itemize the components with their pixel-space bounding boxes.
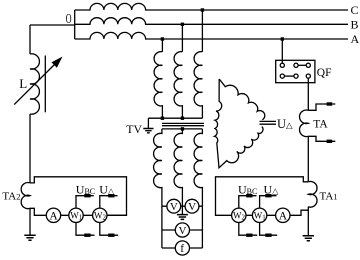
TV core lines xyxy=(162,123,204,125)
wattmeter W1 voltage terminal bottom xyxy=(76,223,95,236)
svg-text:TV: TV xyxy=(126,122,142,136)
wattmeter W2 voltage terminal top xyxy=(100,196,118,208)
svg-text:L: L xyxy=(19,76,27,91)
inductor L (arc suppression coil) xyxy=(30,54,39,114)
wire drop phase b to TV xyxy=(181,24,183,52)
TV secondary bus xyxy=(162,128,203,130)
wattmeter W2 voltage terminal top (right) xyxy=(239,196,257,208)
wire L to TA2 xyxy=(29,114,31,183)
voltmeter V (b-c) xyxy=(185,199,199,213)
junction dot on line C (TV phase c drop) xyxy=(201,8,204,11)
circuit breaker QF box xyxy=(276,60,315,82)
open-delta cloud winding (top outline) xyxy=(219,79,265,120)
ground (TV neutral) xyxy=(143,129,153,133)
wire line A to QF xyxy=(281,39,283,63)
junction dot on line B (TV phase b drop) xyxy=(181,23,184,26)
wattmeter W1 voltage terminal bottom (right) xyxy=(260,223,278,236)
svg-text:V: V xyxy=(170,201,178,213)
wire QF to TA xyxy=(307,78,309,110)
wattmeter W1 voltage terminal top xyxy=(76,196,94,208)
svg-text:U△: U△ xyxy=(264,182,280,196)
phase C winding (series coil) and line C xyxy=(75,3,348,10)
svg-text:O: O xyxy=(66,11,72,26)
svg-text:A: A xyxy=(49,211,58,223)
wire O to L xyxy=(30,24,75,26)
TV primary neutral bus xyxy=(148,117,202,119)
wire f taps xyxy=(162,247,203,249)
wire drop phase a to TV xyxy=(161,39,163,52)
current transformer TA xyxy=(300,110,309,137)
svg-text:B: B xyxy=(351,18,359,32)
current transformer TA1 xyxy=(308,181,317,207)
TA secondary tap bottom xyxy=(308,136,335,141)
wattmeter W1 voltage terminal top (right) xyxy=(260,196,277,208)
ammeter A (left) xyxy=(46,208,60,222)
wire voltmeter row xyxy=(162,205,203,207)
U_delta output double line xyxy=(260,121,277,124)
wire TV neutral to ground xyxy=(147,118,149,128)
wattmeter W2 (right) xyxy=(232,208,246,222)
wire L top lead xyxy=(29,25,31,54)
TV primary winding phase c xyxy=(194,52,202,119)
phase A winding (series coil) and line A xyxy=(75,32,348,39)
wattmeter W2 (left) xyxy=(93,208,107,222)
TA secondary tap top xyxy=(308,104,335,110)
wire TA1 secondary top to loop (right instrument loop top) xyxy=(216,177,309,216)
wattmeter W2 voltage terminal bottom xyxy=(100,223,118,236)
ground (TV secondary b) xyxy=(177,215,188,220)
wire TA to TA1 xyxy=(307,136,309,182)
svg-text:TA1: TA1 xyxy=(320,191,338,203)
inductor L adjust arrow xyxy=(14,63,56,105)
svg-text:C: C xyxy=(351,3,359,17)
junction dot on line A (TV phase a drop) xyxy=(161,37,164,40)
TV secondary winding c xyxy=(194,129,202,248)
TV secondary winding b xyxy=(174,129,182,215)
ground (below TA1) xyxy=(303,236,314,241)
current transformer TA2 xyxy=(21,183,30,209)
svg-text:A: A xyxy=(279,211,288,223)
junction dot TV secondary b xyxy=(181,127,184,130)
wattmeter W2 voltage terminal bottom (right) xyxy=(239,223,257,236)
wire TA1 to ground xyxy=(307,207,309,236)
junction dot TV neutral a xyxy=(161,117,164,120)
TV secondary winding a xyxy=(154,129,162,248)
ammeter A (right) xyxy=(276,208,290,222)
junction dot TV neutral b xyxy=(181,117,184,120)
open-delta cloud winding (bottom and left outline) xyxy=(215,79,263,168)
svg-text:UBC: UBC xyxy=(76,182,95,196)
wire TA2 to ground xyxy=(29,208,31,235)
svg-text:U△: U△ xyxy=(99,182,115,196)
ground (below TA2) xyxy=(24,235,35,240)
voltmeter V (a-c) xyxy=(175,223,189,237)
svg-text:f: f xyxy=(180,243,184,255)
junction dot on line A (QF drop) xyxy=(281,37,284,40)
wattmeter W1 (right) xyxy=(252,208,266,222)
voltmeter V (a-b) xyxy=(167,199,181,213)
node O neutral bus xyxy=(74,10,76,39)
inductor L core bar xyxy=(44,56,46,113)
wire meters row (right group) xyxy=(232,214,290,216)
wire TA1 secondary bottom to ammeter xyxy=(290,210,308,215)
phase B winding (series coil) and line B xyxy=(75,18,348,25)
QF top row link bar xyxy=(298,64,306,66)
wire meters row (left group) xyxy=(46,214,126,216)
wire TA2 secondary top to loop (left instrument loop top) xyxy=(30,177,127,216)
QF contact circles top row xyxy=(280,63,284,67)
TV primary winding phase b xyxy=(174,52,182,119)
frequency meter f xyxy=(175,241,189,255)
QF contact circles bottom row xyxy=(280,74,284,78)
svg-text:V: V xyxy=(188,201,196,213)
wire V line-voltage taps xyxy=(162,229,203,231)
TV primary winding phase a xyxy=(154,52,162,119)
svg-text:V: V xyxy=(179,225,187,237)
QF bottom row link bar xyxy=(284,75,294,77)
svg-text:QF: QF xyxy=(317,67,332,79)
svg-text:U△: U△ xyxy=(277,117,293,131)
wire drop phase c to TV xyxy=(201,10,203,52)
svg-text:TA2: TA2 xyxy=(2,190,20,202)
svg-text:A: A xyxy=(351,32,360,46)
svg-text:TA: TA xyxy=(313,118,328,130)
svg-text:UBC: UBC xyxy=(238,182,257,196)
wattmeter W1 (left) xyxy=(69,208,83,222)
wire TA2 secondary bottom to ammeter xyxy=(30,208,46,215)
